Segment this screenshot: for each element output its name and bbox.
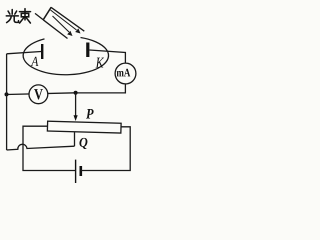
electrode K (cathode plate) bbox=[86, 43, 89, 58]
wire: battery to rheostat right terminal bbox=[81, 127, 130, 171]
wire: slider wire from bus down to P bbox=[75, 93, 77, 116]
phototube envelope (ellipse with window gap) bbox=[23, 38, 108, 75]
electrode A (anode plate) bbox=[41, 44, 43, 59]
battery negative plate (long) bbox=[75, 160, 77, 183]
wire: Q tap up to rheostat body bbox=[74, 132, 76, 146]
label P bbox=[86, 109, 94, 119]
wire: anode lead A to left wire bbox=[7, 52, 41, 54]
wire: rheostat left terminal down to battery bbox=[23, 126, 75, 170]
wire: left outer wire bbox=[6, 54, 8, 150]
wire: cathode K to milliammeter bbox=[89, 50, 125, 63]
battery positive plate (short thick) bbox=[80, 166, 83, 176]
node: junction dot at slider branch bbox=[74, 91, 78, 95]
label Q bbox=[79, 138, 87, 149]
light beam arrow 1 bbox=[53, 16, 73, 36]
milliammeter mA bbox=[115, 63, 136, 84]
wire: bottom left with crossover hop bbox=[7, 144, 75, 150]
label 光束 (light beam) bbox=[6, 9, 30, 23]
voltmeter V bbox=[29, 85, 48, 104]
rheostat (potentiometer) body bbox=[47, 121, 121, 133]
node: junction dot on left wire bbox=[5, 92, 9, 96]
slider arrow P bbox=[74, 115, 78, 121]
wire: bus through voltmeter row bbox=[7, 93, 76, 95]
light beam slab bbox=[35, 7, 84, 38]
label A bbox=[31, 57, 39, 66]
label K bbox=[96, 58, 104, 68]
wire: milliammeter bottom to bus bbox=[76, 84, 126, 93]
light beam arrow 2 bbox=[51, 10, 81, 34]
